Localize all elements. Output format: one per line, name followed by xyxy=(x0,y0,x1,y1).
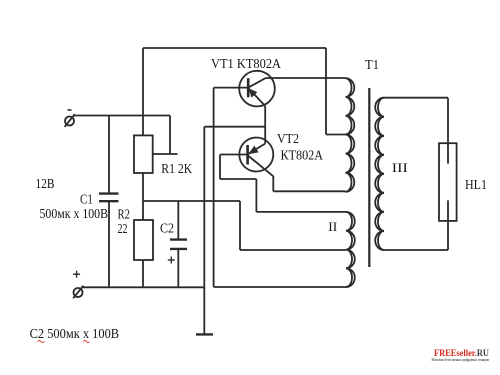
svg-text:FREEseller.RU: FREEseller.RU xyxy=(434,348,489,358)
transformer T1 winding I xyxy=(346,78,355,192)
wire mid horizontal from R1/R2 junction xyxy=(143,200,240,202)
svg-text:C1: C1 xyxy=(80,192,93,207)
wire VT2 base drop xyxy=(219,155,221,180)
lamp HL1 xyxy=(439,143,457,221)
wire drop to R1 tap xyxy=(169,116,171,155)
wire C1 upper lead xyxy=(108,116,110,194)
wire C2 lower lead xyxy=(177,249,179,287)
wire VT2 base drop 2 xyxy=(255,179,257,212)
wire HL1 bottom lead xyxy=(447,200,449,250)
svg-text:КТ802А: КТ802А xyxy=(281,148,324,163)
wire winding III bottom xyxy=(384,249,448,251)
terminal XS2 plus xyxy=(73,286,83,299)
transformer core xyxy=(368,88,370,267)
svg-text:12В: 12В xyxy=(36,176,55,191)
wire VT1 base drop xyxy=(213,88,215,287)
wire bottom left bus xyxy=(82,286,204,288)
svg-text:22: 22 xyxy=(118,221,128,236)
capacitor C2 xyxy=(170,240,187,249)
transformer T1 winding III xyxy=(375,98,384,250)
wire right drop from top bus xyxy=(325,48,327,135)
wire VT2 base lead xyxy=(220,154,247,156)
svg-text:T1: T1 xyxy=(365,57,379,72)
wire to winding II top xyxy=(256,211,346,213)
svg-text:II: II xyxy=(328,220,337,234)
wire R2 lower lead xyxy=(142,260,144,287)
wire emitter link horizontal xyxy=(204,126,265,128)
capacitor C1 xyxy=(99,194,119,202)
wire tap to winding II center xyxy=(240,249,346,251)
wire tap to winding I center xyxy=(326,134,346,136)
svg-text:Магазин бесплатных цифровых то: Магазин бесплатных цифровых товаров xyxy=(432,358,490,362)
wire R1 tap xyxy=(153,153,178,155)
resistor R1 xyxy=(134,135,153,173)
wire HL1 top lead xyxy=(447,98,449,164)
svg-text:VT1 KT802A: VT1 KT802A xyxy=(211,56,281,71)
svg-text:R2: R2 xyxy=(118,207,131,222)
svg-text:HL1: HL1 xyxy=(465,177,487,192)
svg-text:C2: C2 xyxy=(160,221,174,236)
ground xyxy=(196,333,213,335)
terminal plus sign xyxy=(73,271,80,278)
wire from minus terminal xyxy=(73,115,170,117)
wire VT2 emitter drop xyxy=(272,176,274,191)
spellcheck squiggle 2 xyxy=(84,341,90,343)
terminal minus sign xyxy=(68,109,72,111)
resistor R2 xyxy=(134,220,153,260)
wire winding III top xyxy=(384,97,448,99)
svg-text:VT2: VT2 xyxy=(277,131,299,146)
wire C1 lower lead xyxy=(108,202,110,288)
svg-text:500мк x 100В: 500мк x 100В xyxy=(40,206,109,221)
transistor VT1 xyxy=(239,71,275,107)
C2 polarity plus xyxy=(168,257,175,264)
wire VT1 collector to winding I top xyxy=(266,77,346,79)
wire drop toward winding II tap xyxy=(239,201,241,250)
transistor VT2 xyxy=(239,138,273,177)
spellcheck squiggle 1 xyxy=(38,341,45,343)
svg-text:R1 2K: R1 2K xyxy=(161,161,192,176)
wire ground vertical xyxy=(203,127,205,335)
wire bottom right to winding II xyxy=(214,286,346,288)
terminal XS1 minus xyxy=(65,114,75,127)
wire R1 to R2 xyxy=(142,173,144,220)
wire VT2 base horizontal jog xyxy=(220,178,256,180)
wire top bus xyxy=(143,47,326,49)
wire VT1 base lead xyxy=(214,87,248,89)
wire C2 upper lead xyxy=(177,201,179,240)
wire left drop from top bus to R1 xyxy=(142,48,144,135)
wire VT1 emitter to VT2 collector xyxy=(264,106,266,144)
svg-text:C2 500мк x 100В: C2 500мк x 100В xyxy=(30,326,120,341)
wire VT2 emitter to winding I bottom xyxy=(273,190,345,192)
transformer T1 winding II xyxy=(346,212,355,287)
svg-text:III: III xyxy=(392,161,408,175)
